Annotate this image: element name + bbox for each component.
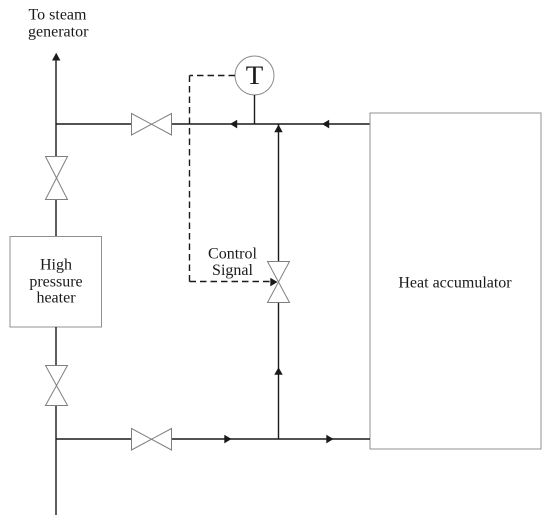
wire: bottom horizontal pipe right segment xyxy=(172,438,370,440)
wire: bottom horizontal pipe left segment xyxy=(56,438,131,440)
text: To steam generator label xyxy=(28,7,89,41)
valve V2: vertical valve above heater xyxy=(46,157,68,200)
svg-text:Signal: Signal xyxy=(212,262,253,279)
arrow: flow left on top pipe (west of T stem) xyxy=(230,120,237,129)
box: Heat accumulator xyxy=(370,113,541,449)
arrow: up arrow to steam generator xyxy=(52,53,60,61)
sensor: temperature transmitter T xyxy=(235,56,274,95)
svg-text:High: High xyxy=(40,257,72,274)
svg-text:Control: Control xyxy=(208,245,257,262)
arrow: control signal arrowhead into valve V5 xyxy=(270,278,277,287)
wire: heater box to valve V3 xyxy=(55,327,57,365)
box: High pressure heater xyxy=(10,237,102,328)
svg-text:heater: heater xyxy=(36,289,76,306)
valve V1: horizontal valve on top pipe xyxy=(132,114,172,136)
valve V4: horizontal valve on bottom pipe xyxy=(132,429,172,451)
svg-text:Heat accumulator: Heat accumulator xyxy=(398,275,512,292)
arrow: flow up on middle pipe xyxy=(274,367,282,375)
svg-text:generator: generator xyxy=(28,23,89,40)
svg-text:To steam: To steam xyxy=(29,7,88,24)
svg-text:pressure: pressure xyxy=(29,273,82,290)
valve V5: control valve (vertical) xyxy=(268,262,290,303)
wire: dashed control signal horizontal run to valve xyxy=(190,281,271,283)
wire: dashed control signal vertical run xyxy=(189,76,191,282)
wire: left vertical pipe below valve V3 to bottom xyxy=(55,406,57,515)
wire: middle vertical pipe upper segment xyxy=(278,124,280,261)
wire: top horizontal pipe right segment xyxy=(172,123,370,125)
wire: sensor stem to top pipe xyxy=(254,95,256,124)
arrow: flow left on top pipe (east) xyxy=(322,120,329,129)
wire: steam outlet vertical pipe (left, x=56) xyxy=(55,56,57,156)
wire: dashed control signal from T sensor (horizontal top) xyxy=(190,75,236,77)
svg-text:T: T xyxy=(246,61,264,90)
wire: pipe valve V2 to heater box xyxy=(55,200,57,237)
arrow: flow right on bottom pipe (west) xyxy=(224,435,231,444)
valve V3: vertical valve below heater xyxy=(46,366,68,406)
arrow: flow up into top pipe junction xyxy=(274,125,282,133)
arrow: flow right on bottom pipe (east) xyxy=(326,435,333,444)
wire: middle vertical pipe lower segment xyxy=(278,303,280,439)
text: Control Signal label xyxy=(208,245,257,278)
wire: top horizontal pipe left segment xyxy=(56,123,131,125)
